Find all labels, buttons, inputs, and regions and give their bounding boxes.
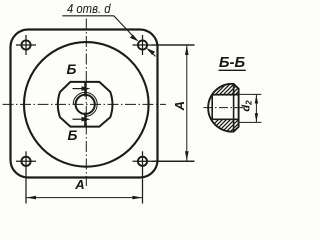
dimension A bottom: arrow left xyxy=(26,196,36,200)
dimension d2: arrows xyxy=(255,95,258,104)
section view: dome outline xyxy=(208,84,238,132)
hole bottom-right xyxy=(133,151,195,203)
section view: cavity bottom xyxy=(212,118,238,120)
svg-text:A: A xyxy=(172,101,187,111)
vertical centerline xyxy=(85,19,87,187)
threaded hole bold circle xyxy=(76,95,95,114)
dimension A right: arrow down xyxy=(185,151,189,161)
svg-text:Б: Б xyxy=(67,127,77,143)
svg-text:d2: d2 xyxy=(240,100,253,112)
section view: hatching top band xyxy=(204,82,248,134)
hole bottom-left xyxy=(16,151,36,203)
dimension A right: dimension line xyxy=(186,45,188,161)
large boss circle xyxy=(24,42,149,167)
central hex boss outline xyxy=(58,82,113,127)
hole top-right xyxy=(133,35,195,55)
section arrow bottom xyxy=(73,117,91,122)
section view: inner vertical edge xyxy=(233,84,235,132)
plate outline xyxy=(11,30,158,178)
section view: centerline xyxy=(204,107,247,109)
section line thick stroke top xyxy=(84,82,86,97)
section view: cavity top xyxy=(212,94,238,96)
dimension d2: dimension line xyxy=(255,94,257,122)
section arrow top xyxy=(73,86,91,91)
hole top-left xyxy=(16,35,36,55)
horizontal centerline xyxy=(3,103,167,105)
svg-text:Б-Б: Б-Б xyxy=(219,54,246,71)
dimension A right: arrow up xyxy=(185,45,189,55)
thread thin 3/4 arc xyxy=(73,92,97,116)
section line thick stroke bottom xyxy=(84,113,86,127)
leader note 4 otv. d xyxy=(62,1,139,42)
dimension d2: extension lines xyxy=(239,93,261,95)
svg-text:Б: Б xyxy=(67,61,77,77)
dimension A right: extension lines xyxy=(152,44,195,46)
svg-text:A: A xyxy=(74,177,84,192)
hole diameter second arrow xyxy=(146,48,156,57)
dimension A bottom: dimension line xyxy=(26,197,143,199)
section view: cavity left xyxy=(211,95,213,120)
dimension A bottom: arrow right xyxy=(132,196,142,200)
mask hatch out of cavity xyxy=(209,96,239,119)
svg-text:4 отв. d: 4 отв. d xyxy=(67,1,111,16)
